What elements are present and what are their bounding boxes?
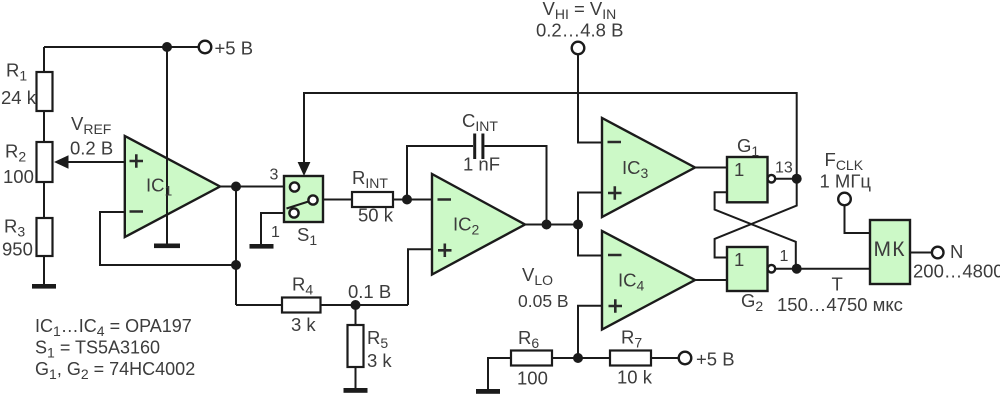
ground R5 — [344, 388, 368, 393]
resistor RINT — [352, 167, 394, 226]
label VLO — [518, 264, 569, 311]
wire R2-R3 — [43, 182, 45, 218]
svg-text:0.05 В: 0.05 В — [518, 291, 569, 311]
wire R3-ground — [43, 256, 45, 284]
wire R1-R2 — [43, 111, 45, 142]
gate G2 — [727, 247, 775, 314]
node top rail junction — [162, 42, 172, 52]
legend text — [35, 316, 195, 382]
arrow S1 control — [298, 162, 311, 176]
svg-text:950: 950 — [2, 239, 33, 260]
svg-text:+5 В: +5 В — [215, 38, 254, 59]
wire IC4 out to G2 — [695, 279, 727, 281]
wire to IC4 inverting — [578, 225, 602, 256]
arrow VREF — [54, 155, 69, 168]
svg-text:N: N — [950, 241, 963, 262]
wire divider column — [43, 47, 45, 72]
terminal +5V right — [679, 349, 735, 370]
svg-text:13: 13 — [775, 160, 793, 177]
resistor R6 — [488, 327, 552, 389]
wire FCLK to MK — [845, 206, 871, 234]
wire IC4 noninverting — [578, 306, 602, 358]
resistor R5 — [348, 305, 393, 388]
wire control top rail — [304, 93, 797, 179]
resistor R7 — [610, 327, 679, 388]
svg-text:200…4800: 200…4800 — [913, 261, 1000, 282]
ground R3 — [32, 284, 56, 289]
node comparator branch — [573, 220, 583, 230]
op-amp IC3 — [602, 118, 695, 217]
node VLO divider — [573, 353, 583, 363]
wire IC1 output — [220, 186, 284, 188]
wire to IC3 noninverting — [578, 193, 602, 225]
node R4/R5 — [351, 300, 361, 310]
svg-text:+5 В: +5 В — [696, 349, 735, 370]
node integrator input — [402, 195, 412, 205]
svg-text:3 k: 3 k — [367, 350, 392, 371]
svg-text:100: 100 — [3, 166, 34, 187]
wire G2 to MK — [797, 268, 870, 270]
wire IC1 inverting feedback — [100, 212, 236, 265]
svg-text:G1, G2 = 74HC4002: G1, G2 = 74HC4002 — [35, 359, 195, 382]
svg-text:24 k: 24 k — [1, 87, 37, 108]
svg-text:0.2 В: 0.2 В — [70, 138, 113, 159]
node CINT junction — [542, 220, 552, 230]
svg-text:0.2…4.8 В: 0.2…4.8 В — [536, 20, 623, 41]
svg-text:1: 1 — [780, 248, 789, 265]
wire R4 to node — [321, 304, 409, 306]
wire S1 pin1 — [261, 213, 284, 244]
wire S1 to RINT — [323, 199, 352, 201]
wire cross G2out to G1 input — [715, 192, 796, 268]
wire +5V top rail — [44, 46, 199, 48]
svg-text:1 МГц: 1 МГц — [820, 171, 872, 192]
wire IC2 output — [525, 224, 578, 226]
block MK — [870, 220, 910, 284]
gate G1 — [727, 135, 775, 202]
wire VREF tap — [66, 161, 125, 163]
capacitor CINT — [462, 110, 500, 175]
node G2 output — [792, 264, 802, 274]
switch S1 — [284, 176, 323, 248]
svg-text:50 k: 50 k — [358, 205, 394, 226]
wire R6 to node — [552, 357, 610, 359]
wire IC1 supply — [166, 47, 168, 244]
op-amp IC4 — [602, 231, 695, 330]
svg-text:1: 1 — [734, 159, 744, 180]
op-amp IC2 — [432, 174, 525, 275]
svg-text:10 k: 10 k — [617, 367, 653, 388]
svg-text:1: 1 — [734, 249, 744, 270]
ground R6 — [476, 389, 500, 394]
svg-text:100: 100 — [517, 368, 548, 389]
wire IC3 out to G1 — [695, 167, 727, 169]
node IC1 output — [231, 182, 241, 192]
svg-text:1 nF: 1 nF — [463, 154, 500, 175]
wire cross G1out to G2 input — [715, 179, 797, 258]
resistor R2 — [3, 141, 53, 188]
wire IC2 noninverting — [408, 249, 432, 305]
svg-text:T: T — [832, 274, 843, 295]
wire G2 bubble to node — [775, 268, 797, 270]
wire RINT to IC2 — [393, 199, 432, 201]
node feedback junction — [231, 260, 241, 270]
terminal N — [913, 241, 1000, 282]
terminal VHI — [536, 0, 623, 54]
wire R4 row — [236, 304, 282, 306]
label VREF — [70, 113, 113, 159]
wire G1 bubble to node — [775, 178, 797, 180]
wire feedback vertical — [235, 187, 237, 306]
resistor R3 — [2, 216, 53, 260]
svg-text:1: 1 — [271, 224, 280, 241]
ground S1 — [250, 244, 274, 249]
op-amp IC1 — [125, 136, 220, 237]
terminal +5V top — [199, 38, 253, 59]
svg-text:3 k: 3 k — [291, 314, 316, 335]
svg-text:0.1 В: 0.1 В — [348, 281, 391, 302]
ground IC1 — [154, 244, 180, 249]
svg-text:МК: МК — [874, 238, 906, 261]
wire VHI to IC3 — [578, 55, 602, 143]
resistor R4 — [282, 274, 321, 336]
terminal FCLK — [820, 149, 872, 205]
node G1 output — [792, 174, 802, 184]
resistor R1 — [1, 60, 53, 112]
wire CINT feedback left — [407, 146, 473, 200]
wire MK output — [910, 252, 932, 254]
wire CINT feedback right — [484, 146, 546, 225]
svg-text:3: 3 — [270, 167, 279, 184]
svg-text:150…4750 мкс: 150…4750 мкс — [777, 294, 903, 315]
